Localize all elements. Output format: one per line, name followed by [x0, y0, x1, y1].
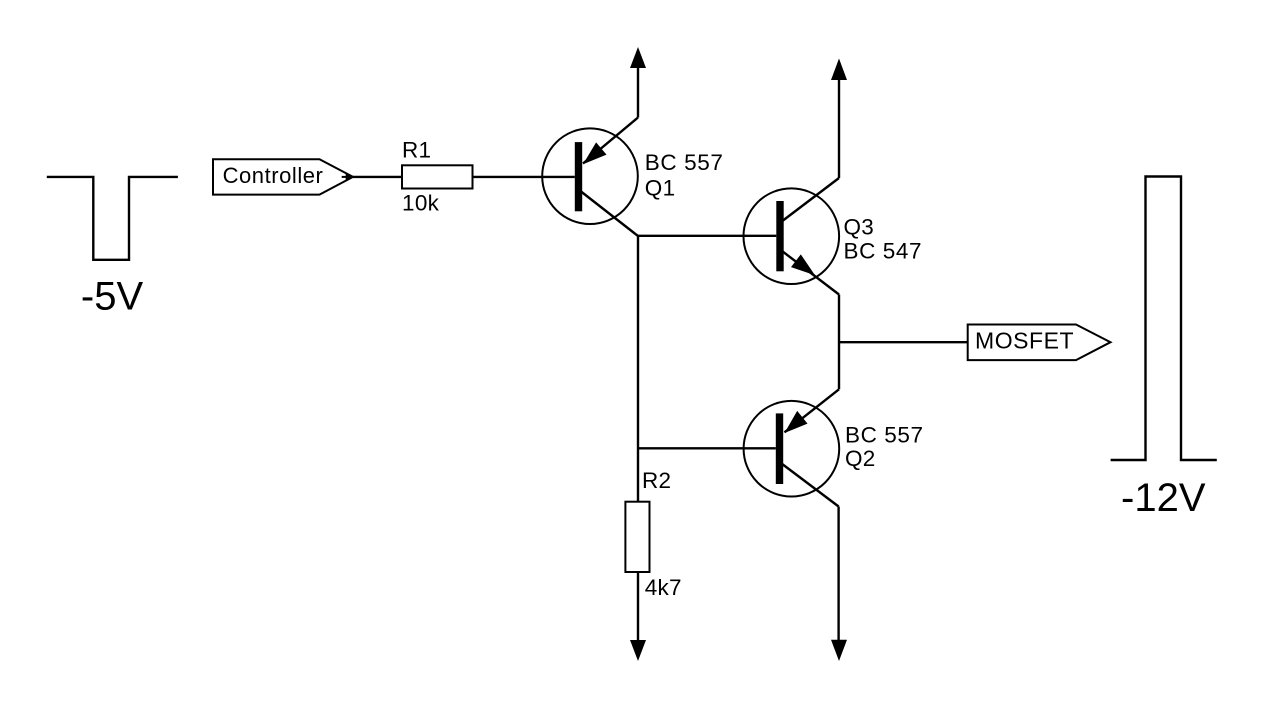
svg-text:4k7: 4k7 [645, 575, 682, 600]
arrow down (R2 to rail) [630, 640, 646, 661]
wire Q2 collector down [837, 507, 839, 643]
node Controller tag [213, 159, 353, 194]
svg-text:R2: R2 [642, 468, 671, 493]
svg-text:MOSFET: MOSFET [975, 328, 1074, 354]
svg-text:R1: R1 [402, 138, 431, 163]
wire R1 to Q1 base [473, 176, 575, 178]
transistor Q2 (BC 557 PNP) [744, 389, 840, 506]
resistor R2 [625, 502, 649, 572]
wire Q1 collector node down [637, 235, 639, 502]
waveform -5V input pulse [47, 177, 178, 260]
wire Q3 emitter down to Q2 emitter [838, 295, 840, 390]
wire node to Q3 base [638, 235, 776, 237]
svg-text:10k: 10k [402, 191, 440, 216]
node MOSFET tag [968, 325, 1111, 361]
arrow up (Q1 supply) [630, 47, 646, 68]
svg-text:Q1: Q1 [645, 176, 676, 201]
resistor R1 [402, 165, 473, 188]
svg-text:BC 557: BC 557 [645, 150, 724, 175]
wire Q3 collector up [838, 78, 840, 178]
wire output node to MOSFET tag [839, 341, 968, 343]
waveform -12V output pulse [1111, 177, 1217, 461]
svg-text:BC 557: BC 557 [845, 422, 924, 447]
transistor Q1 (BC 557 PNP) [542, 118, 638, 237]
svg-text:-5V: -5V [81, 275, 144, 319]
transistor Q3 (BC 547 NPN) [744, 178, 840, 295]
wire node to Q2 base [638, 447, 776, 449]
svg-text:Controller: Controller [223, 163, 324, 188]
wire arrow at Controller tip [342, 176, 347, 178]
arrow up (Q3 supply) [831, 59, 847, 81]
svg-text:BC 547: BC 547 [844, 238, 923, 263]
wire R2 down [637, 572, 639, 642]
svg-text:Q2: Q2 [845, 446, 876, 471]
wire Controller to R1 [353, 176, 402, 178]
arrow down (Q2 to rail) [831, 640, 847, 661]
wire Q1 emitter up [637, 66, 639, 118]
svg-text:Q3: Q3 [844, 215, 875, 240]
svg-text:-12V: -12V [1121, 476, 1206, 520]
